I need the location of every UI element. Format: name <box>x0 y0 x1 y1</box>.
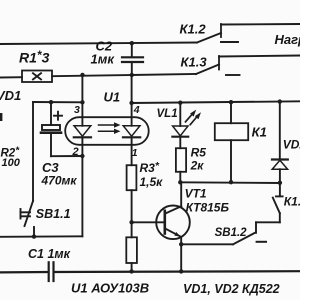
svg-text:100: 100 <box>2 157 21 169</box>
svg-text:SB1.2: SB1.2 <box>215 227 248 239</box>
svg-text:SB1.1: SB1.1 <box>36 207 71 221</box>
svg-text:К1.2: К1.2 <box>180 22 207 37</box>
svg-text:R3*: R3* <box>140 160 160 175</box>
svg-text:R1*3: R1*3 <box>19 48 50 66</box>
svg-text:1,5к: 1,5к <box>140 175 164 189</box>
svg-text:VD2: VD2 <box>283 137 300 151</box>
svg-text:R5: R5 <box>191 145 207 159</box>
svg-text:С1 1мк: С1 1мк <box>28 247 71 261</box>
svg-text:VL1: VL1 <box>157 108 178 120</box>
svg-text:3: 3 <box>74 104 80 116</box>
svg-text:К1: К1 <box>252 125 267 140</box>
svg-text:1: 1 <box>132 147 138 159</box>
svg-text:VD1, VD2 КД522: VD1, VD2 КД522 <box>183 282 280 296</box>
svg-text:Нагр: Нагр <box>275 32 301 47</box>
svg-text:2к: 2к <box>190 159 205 173</box>
svg-text:К1.1: К1.1 <box>284 194 300 208</box>
svg-text:К1.3: К1.3 <box>181 55 208 70</box>
svg-text:1мк: 1мк <box>91 52 116 67</box>
svg-text:VD1: VD1 <box>0 88 21 103</box>
svg-text:4: 4 <box>133 104 140 116</box>
svg-text:2: 2 <box>72 146 79 158</box>
svg-text:U1 АОУ103В: U1 АОУ103В <box>71 280 149 295</box>
svg-text:470мк: 470мк <box>41 173 78 187</box>
svg-text:U1: U1 <box>104 90 121 105</box>
svg-text:КТ815Б: КТ815Б <box>186 201 230 215</box>
svg-text:VT1: VT1 <box>185 187 207 201</box>
